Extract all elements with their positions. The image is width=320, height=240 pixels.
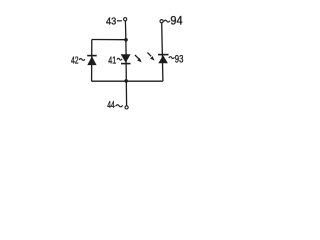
tilde connector from terminal 94 to label 94 — [164, 20, 170, 22]
tilde connector from label 41 to diode 41 — [117, 58, 122, 60]
wire: top horizontal between left branch and middle branch — [92, 39, 127, 41]
diode 41 (LED, triangle down, cathode bar below) — [121, 54, 131, 63]
light arrow into photodiode 93 — [148, 53, 155, 61]
diode 42 (triangle up, cathode bar on top) — [87, 56, 97, 66]
diode 93 (photodiode, triangle up, cathode bar on top) — [158, 55, 169, 64]
junction A (dot at top horizontal / middle branch) — [124, 38, 128, 42]
wire: middle branch from terminal 43 down to junction A — [124, 21, 127, 40]
tilde connector from label 42 to diode 42 — [79, 59, 85, 61]
dash connector from label 43 to terminal 43 — [117, 20, 122, 22]
wire: from junction B down to terminal 44 — [125, 81, 127, 106]
tilde connector from diode 93 to label 93 — [169, 57, 175, 59]
svg-text:41: 41 — [108, 55, 116, 66]
wire: middle branch vertical through diode 41 down to junction B — [125, 40, 127, 81]
svg-text:42: 42 — [71, 55, 79, 66]
wire: left branch vertical through diode 42 — [91, 40, 93, 82]
tilde connector from label 44 to terminal 44 — [116, 105, 123, 107]
svg-text:44: 44 — [107, 100, 115, 111]
wire: right branch from terminal 94 down through diode 93 to bottom rail — [162, 23, 163, 81]
terminal 43 (open circle) — [124, 18, 127, 21]
terminal 44 (open circle) — [125, 106, 128, 109]
svg-text:43: 43 — [106, 16, 117, 27]
light arrow from LED 41 — [135, 55, 142, 63]
svg-text:94: 94 — [170, 16, 183, 28]
terminal 94 (open circle) — [160, 20, 163, 23]
svg-text:93: 93 — [175, 53, 184, 65]
wire: bottom horizontal rail — [92, 80, 163, 82]
junction B (dot at bottom rail / middle branch) — [124, 79, 128, 83]
